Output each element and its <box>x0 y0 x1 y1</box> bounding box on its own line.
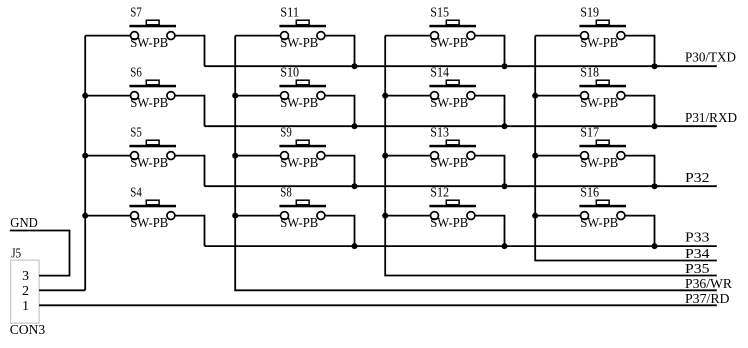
wire S4 right terminal to row line <box>175 216 204 247</box>
svg-text:2: 2 <box>22 283 29 298</box>
svg-text:P36/WR: P36/WR <box>685 276 732 291</box>
svg-text:1: 1 <box>22 298 29 313</box>
junction bus col2 row 4 <box>232 213 238 219</box>
wire S7 right terminal to row line <box>175 36 204 67</box>
switch S6 (SW-PB) <box>129 80 176 99</box>
column 1 bus <box>84 36 86 291</box>
junction bus col1 row 2 <box>82 93 88 99</box>
svg-text:CON3: CON3 <box>10 322 46 337</box>
junction bus col2 row 3 <box>232 153 238 159</box>
junction drop col4 on row line 3 <box>652 183 658 189</box>
wire bus to S14 left terminal <box>385 95 430 97</box>
junction drop col3 on row line 1 <box>502 63 508 69</box>
switch S5 (SW-PB) <box>129 140 176 159</box>
svg-text:S13: S13 <box>430 125 449 140</box>
svg-text:S18: S18 <box>580 65 599 80</box>
column 2 bus / net P36 <box>235 36 717 291</box>
switch S18 (SW-PB) <box>579 80 626 99</box>
svg-text:SW-PB: SW-PB <box>280 215 318 230</box>
wire bus to S8 left terminal <box>235 215 280 217</box>
wire S9 right terminal to row line <box>325 156 354 187</box>
svg-text:SW-PB: SW-PB <box>280 95 318 110</box>
svg-text:SW-PB: SW-PB <box>130 35 168 50</box>
svg-text:SW-PB: SW-PB <box>280 155 318 170</box>
switch S19 (SW-PB) <box>579 20 626 39</box>
wire bus to S6 left terminal <box>85 95 130 97</box>
junction bus col3 row 2 <box>382 93 388 99</box>
svg-text:S16: S16 <box>580 185 599 200</box>
svg-text:P31/RXD: P31/RXD <box>685 110 737 125</box>
svg-text:S11: S11 <box>280 5 299 20</box>
junction drop col2 on row line 1 <box>352 63 358 69</box>
switch S16 (SW-PB) <box>579 200 626 219</box>
junction drop col4 on row line 1 <box>652 63 658 69</box>
svg-text:S7: S7 <box>130 5 142 20</box>
wire bus to S18 left terminal <box>535 95 580 97</box>
wire S19 right terminal to row line <box>625 36 654 67</box>
svg-text:P37/RD: P37/RD <box>685 291 730 306</box>
svg-text:S5: S5 <box>130 125 142 140</box>
junction drop col3 on row line 2 <box>502 123 508 129</box>
svg-text:SW-PB: SW-PB <box>580 215 618 230</box>
wire S12 right terminal to row line <box>475 216 504 247</box>
switch S7 (SW-PB) <box>129 20 176 39</box>
junction bus col2 row 2 <box>232 93 238 99</box>
svg-text:SW-PB: SW-PB <box>430 215 468 230</box>
svg-text:SW-PB: SW-PB <box>130 215 168 230</box>
junction drop col2 on row line 3 <box>352 183 358 189</box>
connector J5 box <box>11 260 39 323</box>
wire S15 right terminal to row line <box>475 36 504 67</box>
svg-text:GND: GND <box>10 215 38 230</box>
wire bus to S10 left terminal <box>235 95 280 97</box>
svg-text:P35: P35 <box>685 261 710 276</box>
wire bus to S16 left terminal <box>535 215 580 217</box>
row 1 output line / net P30 <box>205 65 717 67</box>
wire bus to S17 left terminal <box>535 155 580 157</box>
wire S8 right terminal to row line <box>325 216 354 247</box>
junction bus col1 row 4 <box>82 213 88 219</box>
junction bus col3 row 3 <box>382 153 388 159</box>
wire bus to S13 left terminal <box>385 155 430 157</box>
junction bus col4 row 3 <box>532 153 538 159</box>
wire pin 2 to column 1 bus <box>39 289 85 291</box>
svg-text:SW-PB: SW-PB <box>130 95 168 110</box>
wire S14 right terminal to row line <box>475 96 504 127</box>
svg-text:SW-PB: SW-PB <box>430 95 468 110</box>
junction bus col4 row 4 <box>532 213 538 219</box>
wire S17 right terminal to row line <box>625 156 654 187</box>
svg-text:SW-PB: SW-PB <box>580 155 618 170</box>
wire S10 right terminal to row line <box>325 96 354 127</box>
wire pin 1 / net P37 <box>39 304 717 306</box>
row 2 output line / net P31 <box>205 125 717 127</box>
switch S4 (SW-PB) <box>129 200 176 219</box>
junction drop col3 on row line 3 <box>502 183 508 189</box>
svg-text:S9: S9 <box>280 125 292 140</box>
svg-text:J5: J5 <box>11 245 21 260</box>
svg-text:SW-PB: SW-PB <box>280 35 318 50</box>
switch S17 (SW-PB) <box>579 140 626 159</box>
wire S11 right terminal to row line <box>325 36 354 67</box>
junction bus col3 row 4 <box>382 213 388 219</box>
wire bus to S9 left terminal <box>235 155 280 157</box>
wire bus to S12 left terminal <box>385 215 430 217</box>
svg-text:S4: S4 <box>130 185 142 200</box>
wire bus to S15 left terminal <box>385 35 430 37</box>
wire S13 right terminal to row line <box>475 156 504 187</box>
row 4 output line / net P33 <box>205 245 717 247</box>
svg-text:S10: S10 <box>280 65 299 80</box>
junction drop col4 on row line 2 <box>652 123 658 129</box>
wire bus to S19 left terminal <box>535 35 580 37</box>
wire bus to S7 left terminal <box>85 35 130 37</box>
svg-text:S17: S17 <box>580 125 599 140</box>
row 3 output line / net P32 <box>205 185 717 187</box>
switch S15 (SW-PB) <box>429 20 476 39</box>
svg-text:SW-PB: SW-PB <box>430 35 468 50</box>
wire GND to pin 3 <box>10 231 70 276</box>
wire S16 right terminal to row line <box>625 216 654 247</box>
wire S18 right terminal to row line <box>625 96 654 127</box>
wire bus to S5 left terminal <box>85 155 130 157</box>
switch S14 (SW-PB) <box>429 80 476 99</box>
svg-text:S19: S19 <box>580 5 599 20</box>
svg-text:3: 3 <box>22 268 29 283</box>
wire S6 right terminal to row line <box>175 96 204 127</box>
junction drop col3 on row line 4 <box>502 243 508 249</box>
switch S10 (SW-PB) <box>279 80 326 99</box>
svg-text:P34: P34 <box>685 246 710 261</box>
svg-text:P33: P33 <box>685 230 710 245</box>
svg-text:SW-PB: SW-PB <box>130 155 168 170</box>
svg-text:SW-PB: SW-PB <box>580 95 618 110</box>
switch S12 (SW-PB) <box>429 200 476 219</box>
column 3 bus / net P35 <box>385 36 717 276</box>
svg-text:S12: S12 <box>430 185 449 200</box>
switch S9 (SW-PB) <box>279 140 326 159</box>
svg-text:S8: S8 <box>280 185 292 200</box>
junction bus col4 row 2 <box>532 93 538 99</box>
wire bus to S11 left terminal <box>235 35 280 37</box>
svg-text:SW-PB: SW-PB <box>430 155 468 170</box>
svg-text:S6: S6 <box>130 65 142 80</box>
switch S11 (SW-PB) <box>279 20 326 39</box>
junction bus col1 row 3 <box>82 153 88 159</box>
junction drop col2 on row line 2 <box>352 123 358 129</box>
wire S5 right terminal to row line <box>175 156 204 187</box>
switch S8 (SW-PB) <box>279 200 326 219</box>
junction drop col4 on row line 4 <box>652 243 658 249</box>
switch S13 (SW-PB) <box>429 140 476 159</box>
wire bus to S4 left terminal <box>85 215 130 217</box>
svg-text:P32: P32 <box>685 170 710 185</box>
svg-text:S15: S15 <box>430 5 449 20</box>
svg-text:S14: S14 <box>430 65 449 80</box>
svg-text:SW-PB: SW-PB <box>580 35 618 50</box>
junction drop col2 on row line 4 <box>352 243 358 249</box>
column 4 bus / net P34 <box>535 36 717 261</box>
svg-text:P30/TXD: P30/TXD <box>685 50 736 65</box>
